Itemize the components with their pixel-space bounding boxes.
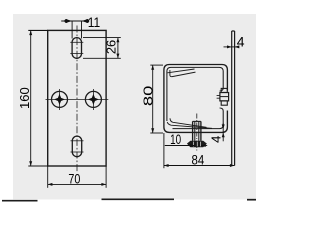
top-left sheet edge diagonal <box>168 69 195 73</box>
bottom-left sheet curl diagonal <box>167 122 212 128</box>
dim line 4 <box>224 46 240 48</box>
svg-text:26: 26 <box>104 40 119 54</box>
right arrow pointing left <box>201 144 206 147</box>
arrow down <box>29 161 32 166</box>
channel inner contour top <box>167 67 223 121</box>
bottom border segment left <box>2 200 38 202</box>
ext line left <box>163 133 165 168</box>
ext line left (slot left) <box>71 21 73 39</box>
arrow right <box>101 183 106 186</box>
bolt head white slits <box>194 142 201 147</box>
arrow up <box>29 30 32 35</box>
top lip end hook <box>220 88 224 91</box>
arrow left pointing right <box>227 45 232 48</box>
dim line 84 <box>164 165 235 167</box>
bottom lip end hook <box>220 108 224 111</box>
channel outer contour <box>164 65 228 133</box>
nut top cap <box>221 88 227 92</box>
bottom T-bolt <box>193 114 201 151</box>
dimension 80 (channel height) <box>150 65 163 133</box>
bolt flange head <box>187 141 207 147</box>
arrow up <box>116 38 119 43</box>
nut left tab <box>217 95 220 98</box>
right hole vertical centerline <box>92 89 94 110</box>
ext line left (plate left edge extended down) <box>47 166 49 188</box>
dim line 80 <box>152 65 154 133</box>
dim line 11 <box>61 20 86 22</box>
bolt centerline <box>196 114 198 151</box>
plate outline <box>48 30 106 166</box>
bolt shaft outer lines <box>193 121 201 140</box>
dimension 26 (top slot height) <box>83 38 121 59</box>
arrow up <box>151 65 154 70</box>
arrow right pointing left <box>235 45 240 48</box>
dimension 70 (plate width) <box>48 166 106 188</box>
ext line bottom <box>83 57 121 59</box>
top-left fold hook <box>170 70 196 77</box>
ext line bottom (plate bottom extended left) <box>28 165 47 167</box>
ext line bottom <box>150 132 163 134</box>
arrow down tip at inner surface <box>222 124 225 129</box>
inner bottom lip line <box>173 111 224 129</box>
drawing panel background <box>13 14 256 200</box>
ext line right (plate right edge extended down) <box>105 166 107 188</box>
bottom slot crosshair lower <box>71 151 84 153</box>
dim line vertical <box>222 123 224 141</box>
nut middle line <box>220 96 229 98</box>
dimension 4 (strip thickness, top right) <box>224 45 240 48</box>
strip (plate edge view) <box>232 31 235 166</box>
arrow at shaft pointing right <box>190 144 195 147</box>
dimension 84 (overall depth) <box>164 133 235 168</box>
svg-text:10: 10 <box>170 131 181 147</box>
bottom border segment middle <box>102 198 175 200</box>
left hole circle <box>52 91 68 107</box>
leader line 10 <box>165 145 195 147</box>
dimension 11 (top slot width) <box>61 19 89 38</box>
bottom slot crosshair upper <box>71 140 84 142</box>
left hole vertical centerline <box>59 89 61 110</box>
dim line 160 <box>30 30 32 166</box>
ext line top <box>150 64 163 66</box>
ext line right (slot right) <box>81 21 83 39</box>
right hole star symbol <box>88 94 99 105</box>
dimension 10 (bolt leader) <box>165 144 207 147</box>
nut bottom cap <box>221 101 227 105</box>
ext line top (plate top extended left) <box>28 29 47 31</box>
arrow right <box>230 164 235 167</box>
bottom border segment right <box>247 199 256 201</box>
svg-text:11: 11 <box>88 14 101 30</box>
top slot crosshair lower <box>70 53 83 55</box>
bottom-left fold hook <box>170 118 207 127</box>
bolt shaft thread lines <box>195 122 199 141</box>
svg-text:80: 80 <box>140 86 155 106</box>
ext line top <box>83 37 121 39</box>
arrow up tip at outer surface <box>222 133 225 138</box>
plate vertical centerline (dash-dot) <box>76 26 78 172</box>
right hole circle <box>85 91 101 107</box>
arrow left pointing right <box>64 19 72 23</box>
top slot crosshair upper <box>70 41 83 43</box>
svg-text:160: 160 <box>17 87 32 109</box>
right arrow tail <box>201 145 207 147</box>
arrow down <box>151 128 154 133</box>
arrow left <box>164 164 169 167</box>
svg-text:4: 4 <box>237 33 245 49</box>
svg-text:4: 4 <box>208 136 223 143</box>
bottom slot (obround) <box>72 136 81 157</box>
arrow down <box>116 54 119 59</box>
nut middle body <box>220 93 229 101</box>
clamp nut on strip <box>217 88 229 105</box>
arrow right pointing left <box>82 19 90 23</box>
top slot (obround 11x26) <box>72 38 81 59</box>
holes horizontal centerline <box>46 98 109 100</box>
svg-text:70: 70 <box>68 171 80 187</box>
left hole star symbol <box>54 94 65 105</box>
dim line 70 <box>48 183 106 185</box>
bolt shaft top cap <box>193 120 201 122</box>
svg-text:84: 84 <box>192 151 205 167</box>
dimension 160 (plate height) <box>28 30 47 166</box>
dim line 26 <box>117 38 119 59</box>
dimension 4 (channel wall thickness, bottom right) <box>222 123 225 141</box>
arrow left <box>48 183 53 186</box>
